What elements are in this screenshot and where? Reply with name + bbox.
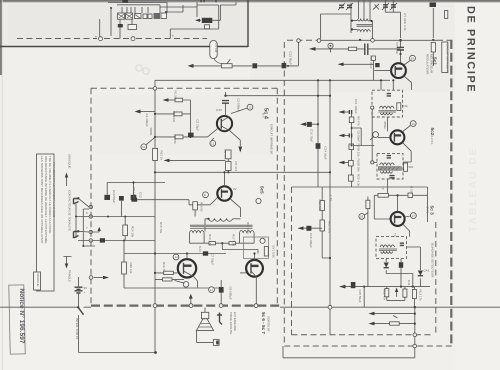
junction dot [329, 257, 331, 259]
capacitor C3 plates [222, 101, 229, 104]
AGC-COLUMN [339, 99, 375, 187]
tick 15 [404, 61, 410, 66]
wire bias row [190, 242, 255, 244]
pin circle box2 [371, 161, 374, 164]
junction dot [414, 306, 416, 308]
BF-INPUT-STAGE [135, 80, 391, 352]
svg-text:PRISE ECOUTE: PRISE ECOUTE [229, 312, 233, 334]
junction dot [329, 79, 331, 81]
tone switch contact lower [74, 232, 79, 239]
board pin circle [317, 39, 321, 43]
measure point 15 [410, 55, 416, 61]
pot element [222, 64, 233, 68]
transformer primary loops [209, 219, 233, 222]
top-left page frame bottom edge [0, 46, 248, 48]
junction dot [329, 95, 331, 97]
wire R2 [155, 113, 191, 115]
wire base diagonal [208, 129, 218, 141]
supply row wire [124, 253, 226, 255]
base wire T5c2 [378, 137, 391, 139]
inner box right lower dashed [435, 222, 437, 335]
capacitor C2 blob [188, 133, 194, 138]
svg-text:12: 12 [210, 288, 214, 292]
resistor R17 [229, 242, 236, 245]
TONE-NET [93, 181, 165, 242]
wire mid tap down [222, 243, 258, 253]
FI-DETECTOR [374, 186, 429, 287]
svg-text:C12: C12 [139, 192, 143, 198]
pot wiper [227, 59, 231, 64]
svg-text:C41: C41 [407, 280, 411, 286]
junction dot [189, 136, 191, 138]
TOPLEFT-INSET [17, 0, 236, 41]
junction dot [253, 252, 255, 254]
emitter wire [404, 76, 412, 90]
svg-text:R14 10k: R14 10k [131, 226, 135, 238]
junction dot [154, 113, 156, 115]
junction dot [329, 171, 331, 173]
junction dot [412, 286, 414, 288]
measure point 18 [359, 214, 365, 220]
arrow left agc1 [344, 111, 349, 113]
svg-text:PAROLE: PAROLE [68, 270, 72, 282]
svg-text:CONTACTEUR DE TONALITE: CONTACTEUR DE TONALITE [67, 190, 71, 231]
junction dot [110, 7, 112, 9]
chassis line right [280, 306, 500, 308]
svg-text:11: 11 [211, 142, 214, 146]
arrow left [196, 19, 201, 21]
wire top links [321, 0, 434, 39]
resistor mid2 [320, 220, 324, 231]
trimmer cap CV4 [391, 5, 396, 7]
svg-text:↑600Ω: ↑600Ω [149, 127, 153, 137]
pin circle b [131, 37, 135, 41]
junction dot [363, 286, 365, 288]
junction dot [227, 171, 229, 173]
dashed board edge left [90, 88, 92, 304]
wire tone bus 1 [93, 216, 155, 218]
board pin 9 [89, 205, 92, 208]
wire to speaker [204, 308, 206, 313]
output cell box [244, 237, 269, 259]
BF-DRIVER [131, 171, 258, 253]
screw adjust circle [183, 282, 189, 288]
tick 17 [405, 216, 411, 217]
svg-text:18: 18 [360, 215, 364, 219]
speaker cone [196, 319, 213, 331]
junction dot [317, 79, 319, 81]
wire feeds box1 [381, 80, 393, 90]
arrow down parole [64, 256, 72, 265]
junction dot [224, 95, 226, 97]
emitter T5c3 [403, 224, 410, 236]
collector wire [397, 195, 399, 212]
wire R14 [124, 217, 126, 241]
transistor T5 output [246, 260, 263, 277]
board pin circle [219, 304, 223, 308]
jack symbol [217, 313, 222, 325]
svg-text:R19 1.5k: R19 1.5k [208, 234, 212, 247]
capacitor blob mid [119, 196, 124, 201]
measure point 4 [173, 254, 179, 260]
BIGTEXT [465, 6, 480, 232]
main minus line left [0, 306, 78, 308]
FI transformer box1 [372, 90, 403, 117]
resistor R13 on rail [153, 148, 158, 160]
svg-text:C22 70nF: C22 70nF [369, 56, 373, 69]
pin circle chassis [328, 305, 332, 309]
arrow marker [393, 316, 398, 319]
transistor T3 driver [217, 186, 231, 200]
wire cap C18 row [303, 227, 322, 229]
svg-text:16: 16 [411, 122, 415, 126]
svg-text:1.P.F.I.: 1.P.F.I. [430, 136, 434, 145]
switch wafer S1a [118, 13, 125, 19]
top edge component legs [123, 0, 216, 3]
wire top bus [108, 2, 219, 39]
arrow left det [339, 285, 346, 289]
top scan band [0, 0, 500, 3]
svg-text:C16 70µF: C16 70µF [310, 129, 314, 142]
SPRINKLE-LABELS [136, 65, 411, 286]
resistor 3k5 [397, 103, 401, 111]
svg-text:CIRCUIT IMPRIME BF: CIRCUIT IMPRIME BF [269, 124, 273, 155]
inner box bottom dashed [292, 334, 435, 336]
wire box2 down [387, 179, 389, 195]
wire tone bus 2 [93, 240, 155, 242]
svg-text:R15 76k: R15 76k [159, 222, 163, 234]
wire switch down and right [79, 315, 156, 353]
svg-text:0.5V: 0.5V [216, 108, 222, 112]
svg-text:3.5k: 3.5k [402, 104, 408, 108]
thermistor TH [175, 135, 183, 139]
junction dot [132, 181, 134, 183]
C22 component [372, 56, 376, 60]
secondary right loops [240, 231, 255, 233]
svg-text:17: 17 [412, 214, 416, 218]
arrow left agc2 [344, 135, 349, 137]
long wire y172 [155, 171, 330, 173]
box1 core [379, 110, 397, 112]
tone switch contact upper [74, 199, 79, 205]
wire det cap [400, 259, 402, 287]
wire TH row [155, 136, 208, 138]
measure point 15b [373, 132, 379, 138]
speaker driver box [201, 312, 208, 318]
box1 cap [387, 94, 391, 96]
top dark blob [123, 0, 129, 3]
junction dot [186, 252, 188, 254]
detector transformer box3 [376, 237, 407, 259]
FI transformer box2 [377, 153, 403, 179]
svg-text:C9 500µF: C9 500µF [229, 287, 233, 300]
board pin circle [153, 304, 157, 308]
board pin exit [89, 276, 93, 280]
wire box2 left [374, 161, 377, 163]
hatched block [154, 13, 161, 19]
capacitor C18 [306, 226, 311, 231]
junction dot [154, 136, 156, 138]
transistor T 5c2 [390, 130, 404, 144]
box2 core hatched [378, 167, 401, 171]
resistor R4 [226, 150, 231, 159]
resistor 5k6 [404, 163, 408, 171]
box3 loops [380, 245, 395, 247]
wire det bus [345, 286, 431, 288]
left scan edge [0, 0, 2, 75]
wire bottoms [387, 287, 415, 308]
wire emitter bus [188, 287, 221, 289]
BF-OUTPUT [89, 241, 263, 304]
wire col left 5c3 [374, 195, 390, 219]
junction dot [154, 252, 156, 254]
box2 lower loops [380, 171, 392, 173]
junction dot [223, 171, 225, 173]
junction dot [392, 79, 394, 81]
RIGHT-STRUCTURE [84, 40, 500, 358]
secondary leads [190, 233, 255, 244]
resistor R18 [193, 202, 198, 210]
svg-text:CY1.3nF: CY1.3nF [395, 43, 399, 55]
capacitor C14 blob [316, 143, 321, 149]
C22 blob [375, 63, 379, 67]
resistor RB [408, 193, 413, 197]
svg-text:+: + [84, 290, 86, 294]
svg-text:R20 11k: R20 11k [129, 263, 133, 274]
open circle crossing [413, 333, 417, 337]
MAIN-FRAME [0, 0, 248, 47]
main rail vertical [154, 90, 156, 352]
transistor T1 [217, 116, 232, 131]
wire collector [400, 40, 402, 63]
wire branch right [352, 128, 375, 146]
trimmer cap CV1 [339, 5, 344, 7]
input arrow [140, 111, 155, 113]
ghost circle bleed [143, 68, 149, 74]
resistor agc d [349, 175, 354, 181]
pot pill P1 [210, 41, 217, 59]
box3 cap right [400, 243, 404, 245]
emitter arrow down [238, 147, 242, 153]
svg-text:C19 50µF: C19 50µF [289, 52, 293, 65]
speaker hatch [198, 324, 212, 328]
resistors mid column [320, 201, 324, 211]
primary right lead [233, 218, 241, 220]
speaker feed wire b [374, 323, 415, 325]
base wire T4 [155, 272, 178, 274]
junction dot [432, 39, 434, 41]
svg-text:RL5 560: RL5 560 [318, 200, 322, 212]
dashed chassis line [17, 38, 207, 40]
board pin circle [371, 39, 375, 43]
measure point 13 [247, 104, 253, 110]
inner box top [292, 186, 428, 188]
wire row2 [368, 48, 401, 50]
box3 core [379, 249, 397, 251]
wire right col [432, 52, 434, 66]
wire top row 5c3 [374, 194, 427, 196]
open circle crossing [413, 344, 417, 348]
tick to 13 [231, 108, 248, 114]
resistor RA [378, 193, 388, 197]
svg-text:8.4V: 8.4V [198, 246, 202, 252]
measure point 17 [411, 213, 417, 219]
ghost circle bleed [136, 65, 142, 71]
svg-text:PK A ZERO ET LE PRINCIPA LA MA: PK A ZERO ET LE PRINCIPA LA MASSE [52, 162, 56, 217]
junction dot [75, 216, 77, 218]
svg-text:3V: 3V [233, 187, 237, 191]
wire D1 bottom [386, 274, 413, 287]
wire C9 [220, 280, 222, 304]
resistor hp [390, 322, 400, 325]
board line dash end [287, 39, 453, 41]
screw adjust [328, 43, 333, 48]
wire feeds [100, 7, 148, 39]
OSC-TOP [287, 0, 453, 42]
svg-text:LES TENSIONS SONT MESUREES AVE: LES TENSIONS SONT MESUREES AVEC UN APPAR… [40, 156, 44, 244]
junction dot [154, 272, 156, 274]
chassis line stub left [84, 306, 92, 308]
bottom L wire [283, 307, 415, 358]
vertical feeder x330 [329, 80, 331, 334]
VOLUME-POT [188, 41, 374, 69]
junction dot [414, 323, 416, 325]
wire left column [124, 241, 188, 289]
primary left lead [205, 219, 209, 232]
measure point 11 [210, 141, 216, 147]
resistor agc c [349, 160, 354, 166]
svg-text:RCL C70: RCL C70 [327, 221, 331, 234]
junction dot c [400, 40, 402, 42]
dashed board edge top [91, 87, 277, 89]
capacitor blob right [131, 195, 137, 200]
dashed boundary inner [276, 88, 278, 304]
svg-text:C7 50µF: C7 50µF [211, 254, 215, 266]
junction dot [351, 145, 353, 147]
cap bars agc2 [349, 134, 351, 138]
small component right margin [445, 11, 448, 19]
vertical feeder x318 [317, 80, 319, 187]
agc return wire [343, 63, 374, 65]
tick to 10 [146, 137, 155, 145]
junction dot [317, 123, 319, 125]
junction dot [221, 242, 223, 244]
junction dot [123, 240, 125, 242]
diode D2 [419, 266, 421, 287]
svg-text:C14 30µF: C14 30µF [324, 147, 328, 160]
junction dot [124, 216, 126, 218]
svg-text:C10 50µF: C10 50µF [112, 190, 116, 203]
osc core bars [357, 25, 373, 27]
BF-BOX-OUTLINE [91, 42, 284, 346]
junction dot [399, 53, 401, 55]
junction dot [351, 127, 353, 129]
svg-text:5c2: 5c2 [429, 128, 435, 136]
svg-text:R2 223k: R2 223k [172, 111, 176, 123]
FI-CHAIN [370, 79, 416, 195]
connector box [213, 340, 219, 346]
up arrow det [396, 290, 398, 297]
svg-text:P1 1M: P1 1M [214, 44, 218, 53]
transistor T 5c3 [391, 212, 405, 226]
svg-text:T2: T2 [381, 186, 385, 190]
junction dot [400, 286, 402, 288]
svg-text:CIRCUIT IMPRIME F.I.: CIRCUIT IMPRIME F.I. [446, 44, 450, 75]
trimmer cap CV2 [347, 5, 352, 7]
wire mid column [322, 187, 330, 258]
svg-text:REGULATEUR: REGULATEUR [426, 54, 430, 75]
svg-text:5c5: 5c5 [260, 186, 265, 194]
wire C16 row [306, 123, 319, 125]
screw tick [175, 281, 185, 284]
board pin 7 [89, 230, 92, 233]
ground stub arrow [93, 230, 100, 233]
resistor R16 [164, 271, 174, 274]
measurement note box [37, 154, 55, 291]
measure point 8 [203, 192, 209, 198]
resistor block [128, 25, 137, 30]
wire speaker down [197, 331, 214, 343]
svg-text:5k6: 5k6 [409, 165, 414, 169]
wire base run [137, 197, 218, 205]
board pin 5 [89, 239, 92, 242]
REG-MELANGEUR [309, 40, 435, 90]
base wire T5 [240, 272, 246, 274]
svg-text:R11 C2A: R11 C2A [246, 222, 250, 234]
svg-text:R4 575: R4 575 [223, 150, 227, 160]
MID-LINK [300, 79, 331, 335]
arrow left volume [193, 65, 221, 67]
switch contact pair [148, 14, 152, 19]
battery 9V [75, 287, 83, 293]
junction dot end [154, 351, 157, 354]
supply feed wire [226, 95, 331, 97]
collector wire up [225, 92, 227, 116]
svg-text:R7 474: R7 474 [234, 162, 238, 172]
pot arc link [214, 58, 228, 64]
resistor x368 [366, 200, 370, 208]
wire R18 down [194, 210, 196, 217]
box2 bottom cap [389, 176, 394, 178]
svg-text:14: 14 [175, 255, 179, 259]
pin circle box1 [371, 106, 374, 109]
junction dot [82, 245, 84, 247]
transistor T 5c1 [391, 63, 406, 78]
outer box bottom dashed [284, 345, 452, 347]
hatched block [161, 13, 167, 19]
capacitor blob left [104, 195, 110, 200]
agc column wire [351, 112, 353, 187]
resistor bottom b [403, 289, 407, 297]
resistor bottom c [412, 290, 416, 299]
capacitor C9 blob [219, 287, 224, 293]
capacitor C15 blob [351, 282, 356, 288]
emitter wire [230, 131, 241, 146]
svg-text:C9 80nF: C9 80nF [357, 131, 361, 143]
measure point b4 [260, 238, 265, 243]
top-left page frame right edge [247, 0, 249, 47]
resistor R7 [226, 162, 231, 171]
board pin circle [254, 304, 258, 308]
svg-text:R9 47k: R9 47k [357, 116, 361, 126]
SPEAKER-ZONE [196, 308, 236, 346]
board pin circle [153, 87, 157, 91]
box2 loops [380, 163, 395, 165]
osc coil top loops [358, 19, 371, 21]
svg-text:EXTERIEURE: EXTERIEURE [233, 312, 237, 331]
svg-text:MARCHE: MARCHE [36, 274, 40, 287]
arrow right exit [94, 277, 105, 279]
